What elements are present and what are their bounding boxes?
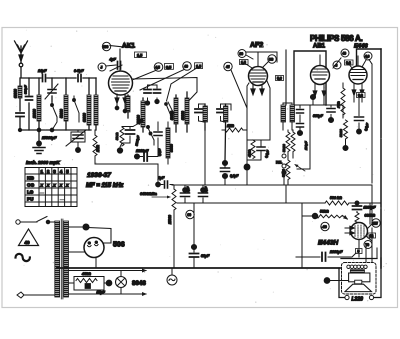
switch osc band <box>148 128 154 145</box>
svg-text:KG: KG <box>27 176 34 181</box>
IF trimmer cap 2 <box>220 104 222 121</box>
svg-text:6400Ω/2a: 6400Ω/2a <box>140 192 157 196</box>
AC symbol <box>16 254 30 261</box>
wire main HT bus (bottom) <box>57 267 340 269</box>
resistor 400 (AF2 cathode) <box>246 135 248 185</box>
capacitor 0,1uF (IF decoupling) <box>224 177 226 185</box>
label L320 terminals <box>345 295 349 299</box>
svg-text:x: x <box>46 183 50 188</box>
pin label 0,2 (boxed) <box>345 60 354 65</box>
svg-text:0,2: 0,2 <box>358 94 363 98</box>
svg-text:1μF: 1μF <box>158 176 165 180</box>
dial lamp <box>116 277 127 288</box>
svg-text:50000: 50000 <box>60 109 64 118</box>
svg-text:AB1: AB1 <box>313 44 326 50</box>
svg-text:22: 22 <box>370 234 374 238</box>
wire output column <box>301 203 303 268</box>
resistor 30000 (antenna series) <box>19 78 21 111</box>
svg-text:5,6: 5,6 <box>277 77 282 81</box>
IF2 trimmer cap b <box>297 124 304 128</box>
wire bus HT2 (y203) <box>177 202 381 204</box>
capacitor 800pF <box>28 78 30 130</box>
pin node 6G (circled) <box>268 55 276 63</box>
svg-text:100pF: 100pF <box>304 141 308 150</box>
resistor 500 (cathode) <box>120 127 124 149</box>
loudspeaker (solid frame) <box>339 258 381 298</box>
capacitor (osc grid) <box>156 85 158 100</box>
svg-text:500 kΩ: 500 kΩ <box>330 196 342 200</box>
tube AB1 (duodiode) <box>311 66 330 85</box>
switch (band) <box>52 102 57 130</box>
pin node 2W (circled) <box>372 219 380 227</box>
svg-text:40: 40 <box>25 240 31 245</box>
capacitor 0,1uF (AF coupling) <box>358 98 360 130</box>
svg-text:4J: 4J <box>226 65 230 69</box>
cathode arrows AK1 <box>117 94 125 99</box>
svg-text:L320: L320 <box>352 297 364 303</box>
pin node 4,0 (circled) <box>364 52 372 60</box>
svg-text:3: 3 <box>53 169 56 174</box>
svg-text:50kΩ: 50kΩ <box>320 210 329 214</box>
waveband table <box>25 168 77 207</box>
capacitor osc padder <box>157 122 159 148</box>
wire right column <box>369 60 372 184</box>
svg-text:4μF: 4μF <box>109 58 117 62</box>
pin label 5,6 (boxed) <box>276 76 284 81</box>
svg-text:14pF: 14pF <box>38 69 47 73</box>
svg-text:1,5: 1,5 <box>241 61 246 65</box>
svg-text:25000: 25000 <box>168 215 172 225</box>
wire osc bracket <box>122 122 141 143</box>
resistor 50000 (RF shunt) <box>65 78 67 130</box>
wire AB1/E446 tops <box>333 58 366 68</box>
speaker magnet <box>349 273 370 282</box>
svg-text:0,1μF: 0,1μF <box>230 174 239 178</box>
wire AF2 cathode rails <box>247 81 270 140</box>
pin node -10 (circled) <box>321 222 329 230</box>
node pickup (dot) <box>312 213 317 218</box>
svg-text:OG: OG <box>27 183 35 188</box>
svg-text:2μF: 2μF <box>186 187 190 193</box>
IF2 trimmer cap a <box>299 106 301 122</box>
svg-text:AF2: AF2 <box>250 42 263 49</box>
svg-text:x: x <box>59 183 63 188</box>
coil 30000 (aerial coil primary) <box>88 78 90 130</box>
speaker winding core <box>350 270 364 273</box>
switch (RF) <box>74 96 79 122</box>
node meter 100 (circled) <box>102 42 110 50</box>
pin node 40 (circled) <box>183 62 192 71</box>
svg-text:x: x <box>40 183 44 188</box>
svg-text:2μF: 2μF <box>204 187 208 193</box>
pin label 5 (boxed) <box>356 249 363 254</box>
rectifier tube 506 <box>84 238 104 258</box>
svg-text:90: 90 <box>188 213 192 217</box>
wire filament tap to rectifier <box>69 251 85 253</box>
wire HT rail right <box>294 51 326 105</box>
coil osc 30000 <box>167 122 169 164</box>
heater line B <box>69 293 147 295</box>
svg-text:30000: 30000 <box>170 144 174 152</box>
node HT/cap junction <box>355 201 359 205</box>
svg-text:20000: 20000 <box>33 109 37 119</box>
svg-text:100: 100 <box>103 45 109 49</box>
switch (osc padder) <box>166 102 174 116</box>
svg-text:1,5: 1,5 <box>196 65 201 69</box>
mains switch <box>16 220 20 224</box>
node 90 (circled) <box>186 210 194 218</box>
wire top RF bus <box>21 77 96 79</box>
trimmer capacitor (band set) <box>51 78 53 102</box>
wire HT loop to rectifier anode <box>88 228 111 244</box>
capacitor 2uF a <box>183 188 187 192</box>
capacitor (screen bypass) <box>147 85 149 101</box>
pin label 1,5 (boxed) <box>135 52 147 58</box>
resistor 50000 (diode filter a) <box>286 130 290 158</box>
capacitor 5000pF (cathode bypass) <box>129 127 131 144</box>
wire pot wiper to x310 <box>297 105 310 169</box>
svg-text:800pF: 800pF <box>24 85 28 94</box>
IF transformer 2 secondary <box>291 103 293 130</box>
IF transformer coil 1 <box>204 104 206 130</box>
heater line A <box>69 270 147 272</box>
IF transformer 2 primary <box>283 103 292 130</box>
mains voltage selector (circled ~) <box>167 275 177 285</box>
svg-text:6G: 6G <box>269 58 274 62</box>
svg-text:x: x <box>65 183 69 188</box>
capacitor 14pF (series antenna) <box>43 75 46 82</box>
svg-text:MF = 115 kHz: MF = 115 kHz <box>86 183 123 189</box>
svg-text:440Ω: 440Ω <box>81 272 91 276</box>
svg-text:400Ω: 400Ω <box>248 149 252 158</box>
speaker transformer winding <box>347 265 367 268</box>
loudspeaker (dashed enclosure) <box>342 263 377 295</box>
pin label 0,2 (boxed, E446) <box>357 93 366 98</box>
pin node 80 (circled) <box>238 50 246 58</box>
wire AK1 cathode dots <box>115 106 118 109</box>
wire pickup stub <box>302 215 314 217</box>
svg-text:40: 40 <box>343 52 347 56</box>
IF trimmer cap 1 <box>198 104 200 121</box>
IF transformer coil 2 <box>224 104 227 161</box>
svg-text:50000: 50000 <box>282 144 286 152</box>
mains terminal bottom <box>17 292 24 298</box>
svg-text:1MΩ: 1MΩ <box>227 124 234 128</box>
svg-text:8046: 8046 <box>132 280 146 287</box>
capacitor 1000pF <box>356 203 358 213</box>
pin node 4,5 (circled) <box>154 63 163 72</box>
wire speaker feed <box>324 278 329 283</box>
resistor 20000 (input shunt) <box>38 78 40 130</box>
svg-text:30000: 30000 <box>14 89 18 98</box>
mains transformer <box>55 221 60 297</box>
speaker cone <box>345 284 372 291</box>
wire ground bus left <box>20 129 91 131</box>
warning triangle 40 <box>19 229 39 246</box>
coil 30000 (osc coil a) <box>175 95 177 132</box>
svg-text:4,5: 4,5 <box>155 66 160 70</box>
resistor 1M (E446 grid leak) <box>341 83 345 118</box>
svg-text:506: 506 <box>113 242 125 249</box>
capacitor 0,5pF (series) <box>78 75 81 82</box>
pin label 1,5 right (boxed) <box>195 63 203 69</box>
svg-text:PHILIPS 586 A.: PHILIPS 586 A. <box>310 34 362 43</box>
coil 30000 (aerial coil secondary) <box>95 78 97 130</box>
svg-text:1MΩ: 1MΩ <box>337 101 341 108</box>
cathode arrows E446 <box>354 84 362 91</box>
svg-text:3,5: 3,5 <box>166 65 171 69</box>
svg-text:Inab. 2000 mμK: Inab. 2000 mμK <box>26 160 60 165</box>
resistor 20000 (AK1 screen) <box>142 98 144 132</box>
wire E443H cathode/anode <box>359 203 372 257</box>
svg-text:1MΩ: 1MΩ <box>96 145 100 152</box>
scan speckle <box>14 30 386 303</box>
pin node 4J (circled) <box>224 62 232 70</box>
wire IF top links <box>199 104 232 122</box>
wire AK1 anode line <box>133 78 198 102</box>
svg-text:50000: 50000 <box>339 129 343 137</box>
coil 30000 (osc coil b) <box>186 92 188 132</box>
svg-text:50000: 50000 <box>282 169 286 177</box>
capacitor 2uF b <box>201 188 205 192</box>
svg-text:80: 80 <box>240 52 244 56</box>
resistor 1M (AVC decoupling) <box>222 128 247 132</box>
capacitor 0,1uF (AF2 cathode bypass) <box>260 140 262 160</box>
wire bus AVC (y185) <box>172 184 372 186</box>
pin label 1,5 (boxed) <box>240 60 249 65</box>
pin node 90 (circled) <box>341 49 349 57</box>
svg-text:32μF: 32μF <box>201 254 210 258</box>
svg-text:2000pF: 2000pF <box>329 250 343 254</box>
svg-text:85μF: 85μF <box>97 291 106 295</box>
tube E443H (output pentode) <box>351 223 368 240</box>
transformer tap 4V + dot <box>69 226 84 228</box>
cathode arrows AB1 <box>315 84 324 92</box>
resistor 50000 (diode filter b) <box>291 130 295 158</box>
tube AF2 (IF pentode) <box>249 67 268 86</box>
svg-text:5: 5 <box>66 169 69 174</box>
pin label 22 (boxed) <box>368 233 376 238</box>
svg-text:x: x <box>52 183 56 188</box>
svg-text:J: J <box>101 66 103 70</box>
wire AF2 top <box>231 52 277 108</box>
svg-text:-10: -10 <box>322 225 327 229</box>
svg-text:E443H: E443H <box>318 240 338 247</box>
tube E446 (AF pentode) <box>349 66 367 84</box>
resistor 20000 (AK1 cathode) <box>127 95 129 118</box>
wire diode bus <box>295 104 341 106</box>
capacitor (antenna to ground) <box>16 113 24 117</box>
svg-text:4: 4 <box>60 169 63 174</box>
wire AK1 pin diagonals <box>134 69 197 102</box>
capacitor 85uF <box>85 284 91 289</box>
svg-text:300pF: 300pF <box>313 114 324 118</box>
wire IF can1 down <box>204 123 206 185</box>
svg-text:2: 2 <box>47 169 50 174</box>
svg-text:30000: 30000 <box>181 111 185 120</box>
svg-text:1,5: 1,5 <box>137 54 142 58</box>
pin label 3,5 (boxed) <box>165 64 174 70</box>
svg-text:40: 40 <box>184 65 188 69</box>
wire AK1 top to HT rail <box>110 46 133 72</box>
svg-text:1936-37: 1936-37 <box>87 172 111 179</box>
capacitor 32uF (electrolytic) <box>192 245 197 250</box>
resistor 600kOhm <box>355 213 359 227</box>
svg-text:25000pF: 25000pF <box>41 136 57 140</box>
svg-text:4,0: 4,0 <box>365 55 370 59</box>
resistor 50000 (E446 bias) <box>344 120 348 146</box>
cathode arrows AF2 <box>253 85 262 90</box>
ground <box>38 130 40 142</box>
tube AK1 (octode) <box>109 71 133 95</box>
antenna <box>15 41 28 77</box>
svg-text:30000: 30000 <box>83 113 87 122</box>
svg-text:PU: PU <box>27 197 34 202</box>
svg-text:P.U.: P.U. <box>276 161 282 165</box>
volume potentiometer 50000 <box>286 158 290 185</box>
pin node 70 (circled) <box>364 241 372 249</box>
resistor 1M (AVC feed) <box>93 130 158 164</box>
pickup terminals P.U. <box>282 154 286 158</box>
pin node -8 (circled) <box>333 61 341 69</box>
wire AVC-HT link <box>285 185 287 203</box>
svg-text:2W: 2W <box>373 222 378 226</box>
svg-text:5: 5 <box>358 250 360 254</box>
svg-text:0-5pF: 0-5pF <box>74 69 84 73</box>
svg-text:1: 1 <box>41 169 44 174</box>
svg-text:LG: LG <box>27 190 34 195</box>
